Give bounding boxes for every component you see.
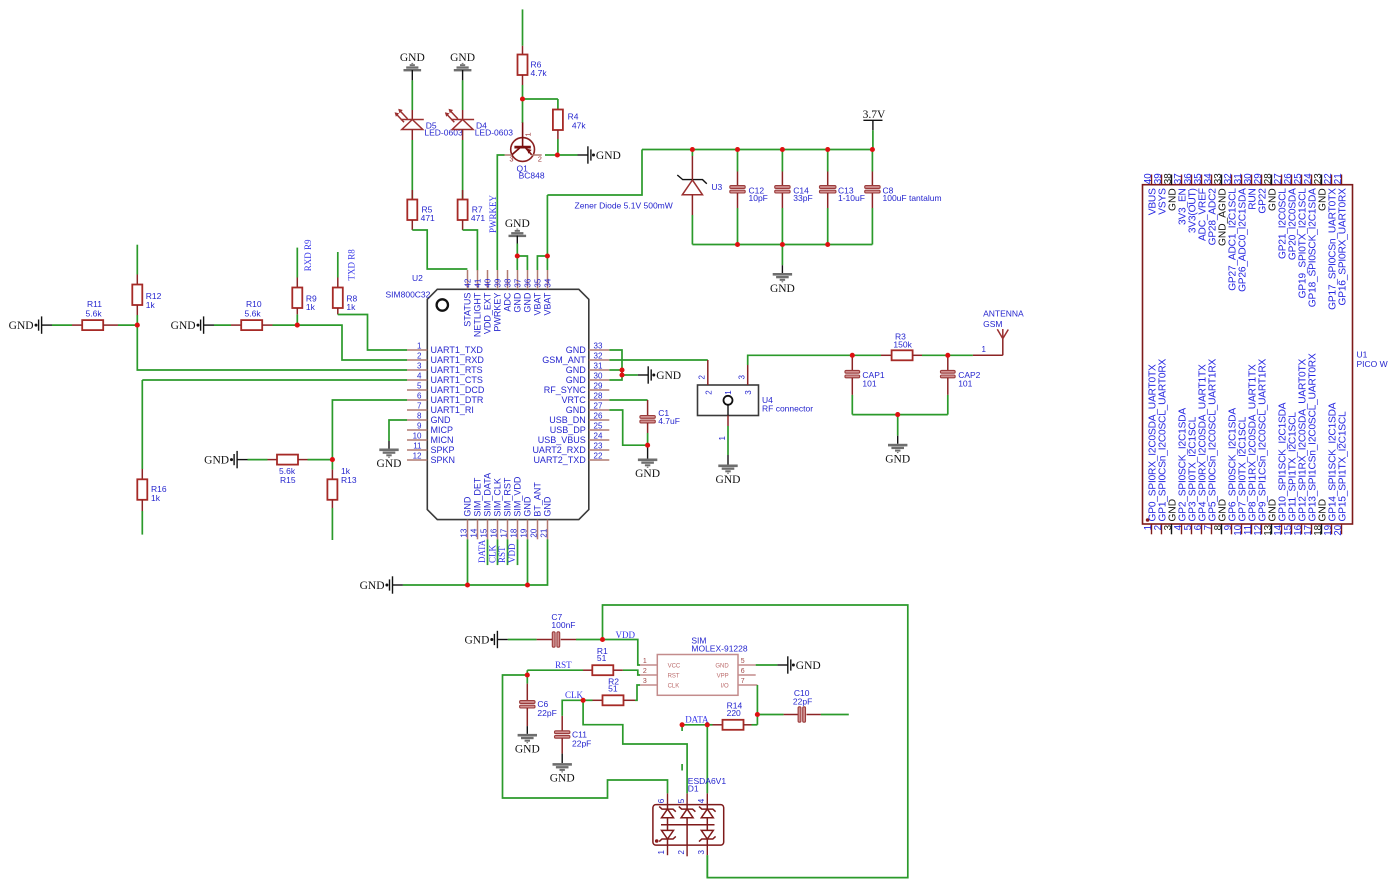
svg-text:42: 42 [463, 278, 472, 287]
node [690, 147, 695, 152]
svg-text:BC848: BC848 [519, 170, 545, 180]
svg-text:GSM_ANT: GSM_ANT [542, 355, 586, 365]
svg-text:UART1_RTS: UART1_RTS [431, 365, 483, 375]
svg-text:GND: GND [522, 292, 532, 313]
svg-text:150k: 150k [893, 340, 912, 350]
wire (VRTC) [609, 399, 647, 401]
connector SIM MOLEX-91228 [640, 636, 757, 696]
wire [757, 715, 783, 725]
wire [403, 539, 548, 585]
svg-text:12: 12 [413, 452, 422, 461]
svg-text:1k: 1k [346, 302, 356, 312]
ground GND (below C1) [635, 445, 660, 480]
svg-text:14: 14 [470, 528, 479, 537]
wire [523, 98, 558, 100]
wire [852, 414, 948, 416]
node [545, 253, 550, 258]
svg-text:PWRKEY: PWRKEY [492, 293, 502, 332]
svg-text:LED-0603: LED-0603 [475, 128, 514, 138]
wire (CLK staircase to D1 pin5) [583, 700, 687, 793]
svg-text:GND: GND [550, 773, 575, 785]
resistor R15 [248, 455, 333, 485]
svg-text:11: 11 [413, 442, 422, 451]
svg-text:GND: GND [566, 345, 587, 355]
svg-text:GP9_SPI1CSn_I2C0SCL_UART1RX: GP9_SPI1CSn_I2C0SCL_UART1RX [1258, 359, 1269, 522]
svg-text:CLK: CLK [668, 683, 680, 689]
resistor R2 [583, 677, 635, 706]
node (R11/R12) [135, 323, 140, 328]
wire [872, 130, 874, 149]
node [515, 253, 520, 258]
svg-text:3: 3 [417, 362, 422, 371]
ground GND (below U4) [716, 455, 741, 486]
wire [467, 539, 469, 585]
svg-text:USB_DN: USB_DN [549, 415, 586, 425]
wire [635, 685, 640, 700]
resistor R3 [852, 332, 948, 361]
wire [622, 374, 638, 376]
wire [522, 9, 524, 45]
node (R6/R4 junction) [520, 96, 525, 101]
svg-text:ADC: ADC [502, 292, 512, 312]
svg-text:ANTENNA: ANTENNA [983, 309, 1024, 319]
wire [781, 245, 783, 266]
svg-text:GND: GND [9, 320, 34, 332]
node [680, 722, 685, 727]
svg-text:51: 51 [608, 684, 618, 694]
capacitor C1 [640, 400, 680, 445]
node [645, 443, 650, 448]
node [525, 582, 530, 587]
svg-text:BT_ANT: BT_ANT [532, 482, 542, 517]
svg-text:GND: GND [360, 580, 385, 592]
svg-text:RF connector: RF connector [762, 403, 813, 413]
capacitor C12 [730, 150, 768, 245]
svg-text:100nF: 100nF [551, 620, 575, 630]
svg-text:U3: U3 [711, 182, 722, 192]
resistor R10 [214, 299, 297, 330]
node (R15/R13) [330, 457, 335, 462]
svg-text:TXD R8: TXD R8 [347, 249, 357, 281]
svg-text:MICN: MICN [431, 435, 454, 445]
svg-text:101: 101 [958, 378, 972, 388]
svg-text:1: 1 [417, 342, 422, 351]
wire (SIM pin5 GND) [756, 664, 778, 666]
svg-text:22: 22 [594, 452, 603, 461]
svg-text:17: 17 [500, 528, 509, 537]
svg-text:21: 21 [1333, 173, 1344, 184]
svg-text:GND: GND [542, 496, 552, 517]
svg-text:GND: GND [596, 150, 621, 162]
svg-text:1: 1 [524, 132, 533, 136]
svg-text:R10: R10 [246, 299, 262, 309]
wire (DATA to D1 pin4) [706, 725, 708, 794]
resistor R13 [327, 462, 356, 508]
resistor R16 [137, 469, 167, 511]
svg-text:7: 7 [741, 678, 745, 685]
svg-text:GND: GND [770, 283, 795, 295]
svg-text:32: 32 [594, 352, 603, 361]
svg-text:SIM_DET: SIM_DET [472, 477, 482, 517]
svg-text:471: 471 [421, 213, 435, 223]
svg-text:GND: GND [796, 660, 821, 672]
wire (VDD loop top) [603, 605, 908, 878]
svg-text:RF_SYNC: RF_SYNC [544, 385, 587, 395]
svg-text:3: 3 [744, 390, 753, 395]
node [735, 242, 740, 247]
net DATA [685, 715, 709, 725]
svg-text:13: 13 [460, 528, 469, 537]
power flag GND (above LED D5) [400, 52, 425, 80]
wire [411, 80, 413, 110]
ground GND (below CAP1/CAP2) [885, 436, 910, 466]
node (RST node) [525, 672, 530, 677]
capacitor C14 [775, 150, 813, 245]
wire (pin33) [609, 350, 622, 380]
svg-text:1k: 1k [146, 300, 156, 310]
svg-text:3: 3 [697, 850, 706, 855]
svg-text:GP16_SPI0RX_UART0RX: GP16_SPI0RX_UART0RX [1338, 188, 1349, 306]
svg-text:PICO W: PICO W [1357, 359, 1388, 369]
LED D5 [395, 109, 463, 140]
svg-text:VDD: VDD [507, 543, 517, 563]
svg-text:R11: R11 [87, 299, 102, 309]
net PWRKEY [488, 195, 498, 234]
node [465, 582, 470, 587]
power flag GND (above LED D4) [450, 52, 475, 80]
svg-text:U2: U2 [412, 273, 423, 283]
wire [462, 140, 464, 200]
wire (D1 pin3 to loop) [706, 855, 708, 877]
svg-text:29: 29 [594, 382, 603, 391]
svg-text:VDD_EXT: VDD_EXT [482, 292, 492, 334]
wire [682, 724, 707, 726]
svg-text:GND: GND [885, 453, 910, 465]
svg-text:GND: GND [716, 474, 741, 486]
svg-text:SIM_RST: SIM_RST [502, 477, 512, 517]
svg-text:RST: RST [555, 660, 572, 670]
wire (net stub above R9) [296, 248, 298, 278]
transistor Q1 [505, 123, 545, 181]
svg-text:40: 40 [483, 278, 492, 287]
svg-text:3: 3 [738, 375, 747, 380]
svg-text:51: 51 [597, 653, 607, 663]
node (R10/R9) [295, 323, 300, 328]
diode array D1 ESDA6V1 [653, 776, 726, 856]
wire (SIM_RST stub) [507, 539, 509, 565]
resistor R5 [407, 190, 435, 230]
connector U4 RF [698, 360, 814, 441]
wire (SIM pin7 I/O) [756, 685, 758, 715]
svg-text:MICP: MICP [431, 425, 454, 435]
node [780, 242, 785, 247]
capacitor CAP2 [940, 355, 980, 414]
svg-text:20: 20 [1333, 524, 1344, 535]
resistor R4 [553, 110, 586, 140]
svg-text:1: 1 [657, 850, 666, 855]
ground GND (left of R11) [9, 316, 52, 333]
wire (PWRKEY) [497, 155, 504, 270]
wire [517, 244, 527, 271]
wire (3.7V rail) [642, 149, 872, 151]
svg-text:4.7uF: 4.7uF [658, 416, 680, 426]
ground GND (left of R10) [171, 316, 214, 333]
svg-text:4.7k: 4.7k [531, 68, 548, 78]
wire [623, 670, 640, 675]
svg-text:UART1_TXD: UART1_TXD [431, 345, 484, 355]
svg-text:101: 101 [862, 378, 876, 388]
svg-text:2: 2 [705, 390, 714, 395]
svg-text:GND: GND [566, 365, 587, 375]
svg-text:1: 1 [724, 390, 733, 395]
svg-text:GND: GND [512, 292, 522, 313]
capacitor C6 [520, 675, 557, 726]
svg-text:GND: GND [715, 663, 729, 669]
net CLK [565, 690, 584, 700]
wire (TXD net) [338, 315, 407, 351]
wire (U4 pin3 to antenna net) [748, 355, 853, 365]
svg-text:220: 220 [727, 708, 741, 718]
wire [557, 139, 559, 155]
wire (stub below R13) [331, 508, 333, 540]
svg-text:5.6k: 5.6k [245, 309, 262, 319]
wire [527, 539, 529, 585]
wire (DATA stub) [681, 725, 683, 731]
svg-text:1k: 1k [306, 302, 316, 312]
svg-text:STATUS: STATUS [462, 293, 472, 327]
wire (SIM_CLK stub) [497, 539, 499, 565]
svg-text:24: 24 [594, 432, 603, 441]
wire (pin8 GND) [389, 420, 407, 441]
svg-text:2: 2 [677, 850, 686, 855]
net CLK [487, 544, 497, 563]
wire (net stub above R8) [337, 252, 339, 278]
IC U1 PICO W [1143, 173, 1388, 536]
svg-text:16: 16 [490, 528, 499, 537]
wire (pin31) [609, 369, 622, 371]
svg-text:UART1_CTS: UART1_CTS [431, 375, 483, 385]
svg-text:39: 39 [493, 278, 502, 287]
capacitor C8 [865, 150, 942, 245]
node [705, 722, 710, 727]
power flag GND (above U2 pin 37) [505, 218, 530, 244]
resistor R1 [583, 646, 623, 675]
ground GND (right of Q1) [578, 146, 621, 163]
svg-text:2: 2 [538, 154, 542, 163]
svg-text:VRTC: VRTC [561, 395, 586, 405]
svg-text:GND: GND [566, 405, 587, 415]
svg-text:GP13_SPI1CSn_I2C0SCL_UART0RX: GP13_SPI1CSn_I2C0SCL_UART0RX [1308, 353, 1319, 521]
svg-text:SPKP: SPKP [431, 445, 455, 455]
supply 3.7V [863, 109, 886, 130]
svg-text:47k: 47k [572, 120, 586, 130]
capacitor CAP1 [845, 355, 885, 414]
svg-text:6: 6 [741, 668, 745, 675]
wire (DTR net) [332, 400, 407, 460]
svg-text:35: 35 [533, 278, 542, 287]
wire (RST) [527, 670, 583, 675]
svg-text:4: 4 [697, 798, 706, 803]
svg-text:D1: D1 [688, 783, 699, 793]
svg-text:R15: R15 [280, 475, 296, 485]
svg-text:37: 37 [513, 278, 522, 287]
svg-text:SPKN: SPKN [431, 455, 456, 465]
node [619, 372, 624, 377]
svg-text:5: 5 [677, 798, 686, 803]
svg-text:8: 8 [417, 412, 422, 421]
svg-text:15: 15 [480, 528, 489, 537]
svg-text:USB_VBUS: USB_VBUS [538, 435, 586, 445]
net VDD [507, 543, 517, 563]
svg-text:GND: GND [656, 370, 681, 382]
svg-text:R13: R13 [341, 475, 357, 485]
svg-text:22pF: 22pF [537, 708, 556, 718]
svg-text:SIM_VDD: SIM_VDD [512, 476, 522, 517]
svg-text:21: 21 [540, 528, 549, 537]
antenna GSM [973, 309, 1024, 356]
wire [897, 415, 899, 436]
svg-text:GP5_SPI0CSn_I2C0SCL_UART1RX: GP5_SPI0CSn_I2C0SCL_UART1RX [1208, 359, 1219, 522]
node [825, 242, 830, 247]
node (VDD) [600, 637, 605, 642]
svg-text:CLK: CLK [565, 690, 584, 700]
svg-text:DATA: DATA [477, 539, 487, 563]
svg-text:1k: 1k [151, 493, 161, 503]
ground GND (U2 bottom rail) [360, 576, 403, 593]
svg-text:1: 1 [981, 345, 986, 354]
wire [411, 140, 413, 200]
svg-text:22pF: 22pF [572, 738, 591, 748]
svg-text:GND: GND [515, 744, 540, 756]
svg-text:5: 5 [741, 658, 745, 665]
svg-text:VCC: VCC [668, 663, 681, 669]
svg-text:41: 41 [473, 278, 482, 287]
ground GND (below cap bank) [770, 265, 795, 295]
wire (net stub above R12) [136, 245, 138, 275]
svg-text:GND: GND [377, 458, 402, 470]
resistor R8 [333, 278, 358, 315]
svg-text:3.7V: 3.7V [863, 109, 886, 121]
svg-text:GND: GND [464, 634, 489, 646]
svg-text:4: 4 [417, 372, 422, 381]
net DATA [477, 539, 487, 563]
node (Q1 emitter/R4) [555, 152, 560, 157]
svg-text:20: 20 [530, 528, 539, 537]
wire (U4 pin1) [727, 426, 729, 455]
resistor R11 [52, 299, 137, 330]
svg-text:33: 33 [594, 342, 603, 351]
svg-text:5.6k: 5.6k [86, 309, 103, 319]
svg-text:NETLIGHT: NETLIGHT [472, 292, 482, 337]
svg-text:2: 2 [643, 668, 647, 675]
svg-text:I/O: I/O [721, 683, 729, 689]
node [755, 712, 760, 717]
svg-text:GND: GND [400, 52, 425, 64]
svg-text:5: 5 [417, 382, 422, 391]
node [895, 412, 900, 417]
resistor R14 [707, 701, 757, 730]
wire (cap bank bottom rail) [692, 244, 872, 246]
wire [412, 230, 467, 269]
svg-text:UART2_RXD: UART2_RXD [532, 445, 586, 455]
svg-text:6: 6 [657, 798, 666, 803]
ground GND (U2 pins 30/31) [638, 366, 681, 383]
svg-text:28: 28 [594, 392, 603, 401]
svg-text:VBAT: VBAT [532, 292, 542, 315]
svg-text:RST: RST [497, 546, 507, 563]
ground GND (below C11) [550, 754, 575, 785]
svg-text:UART2_TXD: UART2_TXD [533, 455, 586, 465]
capacitor C13 [819, 150, 864, 245]
svg-text:30: 30 [594, 372, 603, 381]
svg-text:RXD R9: RXD R9 [303, 239, 313, 271]
svg-text:34: 34 [543, 278, 552, 287]
svg-text:36: 36 [523, 278, 532, 287]
node [870, 147, 875, 152]
svg-text:26: 26 [594, 412, 603, 421]
svg-text:SIM_DATA: SIM_DATA [482, 473, 492, 517]
svg-text:2: 2 [417, 352, 422, 361]
svg-text:RST: RST [668, 673, 680, 679]
svg-text:GND: GND [522, 496, 532, 517]
wire (RXD net) [297, 325, 407, 360]
svg-text:6: 6 [417, 392, 422, 401]
wire [557, 99, 559, 110]
svg-text:GSM: GSM [983, 319, 1002, 329]
svg-text:GND: GND [204, 455, 229, 467]
svg-text:2: 2 [698, 375, 707, 380]
wire [463, 230, 478, 270]
node [619, 367, 624, 372]
node [735, 147, 740, 152]
svg-text:1: 1 [643, 658, 647, 665]
wire (emitter to GND) [545, 154, 578, 156]
wire (GSM_ANT) [609, 359, 708, 361]
svg-text:19: 19 [520, 528, 529, 537]
wire (VDD to SIM pin1) [603, 640, 641, 666]
svg-text:9: 9 [417, 422, 422, 431]
svg-text:MOLEX-91228: MOLEX-91228 [691, 644, 747, 654]
resistor R12 [132, 275, 161, 326]
svg-text:18: 18 [510, 528, 519, 537]
svg-text:GP15_SPI1TX_I2C1SCL: GP15_SPI1TX_I2C1SCL [1338, 411, 1349, 522]
svg-text:10: 10 [413, 432, 422, 441]
svg-text:27: 27 [594, 402, 603, 411]
svg-text:VPP: VPP [717, 673, 729, 679]
ground GND (left of R15) [204, 451, 247, 468]
svg-text:CLK: CLK [487, 544, 497, 563]
svg-text:GND: GND [171, 320, 196, 332]
svg-text:1-10uF: 1-10uF [838, 193, 865, 203]
net VDD [616, 630, 636, 640]
svg-text:Zener Diode 5.1V 500mW: Zener Diode 5.1V 500mW [575, 201, 673, 211]
resistor R6 [518, 46, 548, 85]
svg-text:GP1_SPI0CSn_I2C0SCL_UART0RX: GP1_SPI0CSn_I2C0SCL_UART0RX [1158, 359, 1169, 522]
wire [522, 85, 524, 123]
wire (CLK left) [562, 700, 583, 716]
svg-text:UART1_RI: UART1_RI [431, 405, 474, 415]
net RXD R9 [303, 239, 313, 271]
svg-text:UART1_RXD: UART1_RXD [431, 355, 485, 365]
svg-text:USB_DP: USB_DP [550, 425, 586, 435]
resistor R9 [292, 278, 317, 326]
IC U2 SIM800C32 [386, 270, 610, 539]
svg-text:38: 38 [503, 278, 512, 287]
svg-text:GND: GND [635, 468, 660, 480]
ground GND (left of C7) [464, 631, 507, 648]
svg-text:471: 471 [471, 213, 485, 223]
svg-text:10pF: 10pF [749, 193, 768, 203]
